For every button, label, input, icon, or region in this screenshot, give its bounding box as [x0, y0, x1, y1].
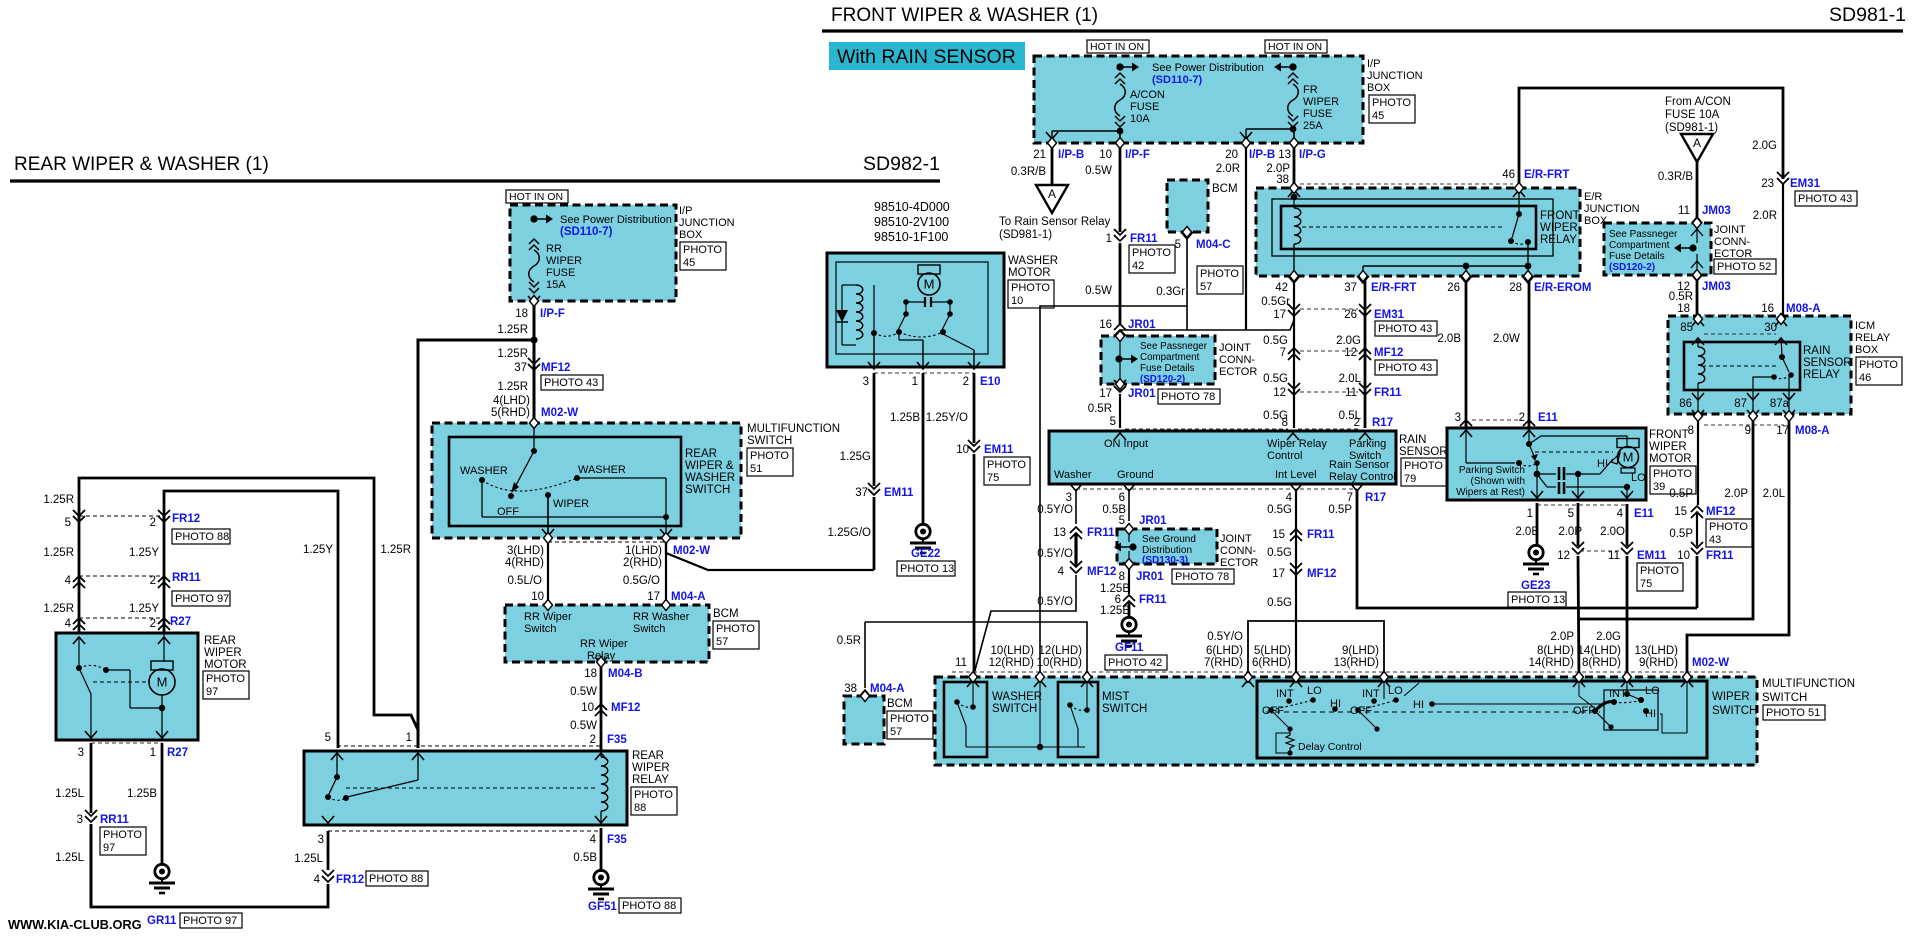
svg-text:9: 9 [1745, 425, 1751, 437]
svg-text:1.25Y: 1.25Y [129, 547, 159, 559]
photo 10 box [1008, 280, 1054, 308]
svg-text:BOX: BOX [679, 229, 703, 241]
svg-text:With RAIN SENSOR: With RAIN SENSOR [837, 46, 1016, 68]
rail1a [1537, 473, 1556, 475]
svg-text:1.25L: 1.25L [55, 852, 84, 864]
wire 0.5W [600, 662, 603, 751]
jr01 ground inner wire [1128, 529, 1130, 542]
arc sw2 [1358, 700, 1396, 710]
wire washer-left to bus [481, 480, 483, 517]
svg-text:SENSOR: SENSOR [1399, 446, 1448, 458]
svg-text:3: 3 [1066, 492, 1072, 504]
wire washer-right [577, 477, 666, 479]
svg-text:79: 79 [1404, 473, 1416, 485]
photo 78 box [1158, 389, 1220, 404]
border port [1290, 138, 1299, 149]
border port [1116, 331, 1125, 342]
svg-text:5: 5 [1568, 508, 1574, 520]
exit 86 [1692, 393, 1704, 400]
pin3 inner [1465, 428, 1467, 463]
svg-text:JM03: JM03 [1702, 281, 1731, 293]
svg-text:CONN-: CONN- [1714, 236, 1750, 248]
pin1 drop [1536, 474, 1538, 500]
svg-text:16: 16 [1099, 319, 1112, 331]
svg-text:98510-2V100: 98510-2V100 [874, 215, 949, 229]
connector FR11-11 [1359, 383, 1371, 395]
wire 2.0L from 87a to M02-W [1687, 416, 1789, 680]
svg-text:MF12: MF12 [1307, 568, 1336, 580]
svg-text:EM11: EM11 [884, 487, 914, 499]
svg-text:20: 20 [1225, 149, 1238, 161]
entry arrow pin1 [412, 753, 424, 760]
entry arrow [1242, 680, 1254, 687]
svg-text:SWITCH: SWITCH [1102, 703, 1147, 715]
hi contact [1332, 706, 1338, 712]
exit arrow pin3 [85, 731, 97, 738]
I/P junction box (front) [1034, 56, 1363, 143]
svg-text:PHOTO 78: PHOTO 78 [1175, 571, 1229, 583]
svg-text:PHOTO: PHOTO [750, 450, 789, 462]
connector dash [1704, 424, 1784, 426]
svg-text:1.25G: 1.25G [840, 451, 871, 463]
contact [871, 330, 877, 336]
svg-text:Fuse Details: Fuse Details [1609, 251, 1665, 262]
svg-text:Switch: Switch [633, 623, 665, 635]
border port [1359, 271, 1368, 282]
entry arrow [1573, 680, 1585, 687]
border port [1749, 411, 1758, 422]
svg-text:PHOTO: PHOTO [1859, 359, 1898, 371]
svg-text:OFF: OFF [497, 506, 519, 518]
svg-text:PHOTO: PHOTO [1653, 468, 1692, 480]
svg-text:86: 86 [1679, 398, 1692, 410]
connector MF12-17 [1290, 563, 1302, 575]
connector E11-3 [1460, 420, 1472, 432]
svg-text:REAR WIPER & WASHER (1): REAR WIPER & WASHER (1) [14, 154, 269, 175]
svg-text:2.0R: 2.0R [1216, 163, 1240, 175]
exit 17 [1783, 410, 1795, 417]
front wiper relay outer frame [1272, 199, 1553, 256]
svg-text:RELAY: RELAY [632, 774, 669, 786]
svg-text:11: 11 [955, 657, 967, 669]
connector R27-2 [158, 618, 170, 630]
svg-text:PHOTO: PHOTO [1200, 268, 1239, 280]
svg-text:0.5R: 0.5R [1669, 291, 1693, 303]
connector dash [1472, 419, 1522, 421]
ground GF51 [588, 870, 614, 899]
photo 88 box [366, 871, 428, 886]
rear wiper motor box [56, 633, 198, 740]
svg-text:0.5G: 0.5G [1263, 335, 1288, 347]
svg-text:1.25R: 1.25R [497, 381, 528, 393]
svg-text:0.5W: 0.5W [1085, 285, 1112, 297]
svg-text:JUNCTION: JUNCTION [1584, 203, 1640, 215]
svg-text:PHOTO 13: PHOTO 13 [900, 563, 954, 575]
svg-text:87: 87 [1734, 398, 1747, 410]
entry arrow [967, 680, 979, 687]
svg-text:88: 88 [634, 802, 646, 814]
svg-text:3: 3 [78, 747, 84, 759]
mist contact feed [1086, 683, 1088, 708]
svg-text:JR01: JR01 [1139, 515, 1167, 527]
svg-text:BCM: BCM [1212, 183, 1238, 195]
svg-text:0.5L/O: 0.5L/O [507, 575, 542, 587]
motor link dash [93, 681, 148, 683]
I/P inner wire 2 [1246, 128, 1293, 130]
with rain sensor banner [829, 42, 1025, 70]
contact [940, 329, 946, 335]
svg-text:M02-W: M02-W [541, 407, 578, 419]
svg-text:ECTOR: ECTOR [1219, 366, 1257, 378]
svg-text:0.5G: 0.5G [1267, 547, 1292, 559]
svg-text:RR Wiper: RR Wiper [580, 638, 628, 650]
svg-text:WASHER: WASHER [1008, 255, 1058, 267]
relay arc [1511, 241, 1528, 244]
connector dash [79, 575, 164, 577]
svg-text:SENSOR: SENSOR [1803, 357, 1852, 369]
svg-text:37: 37 [855, 487, 868, 499]
pivot [1067, 702, 1073, 708]
wire 1.25B to GE22 [922, 373, 925, 524]
svg-text:E/R-EROM: E/R-EROM [1534, 282, 1592, 294]
svg-text:M04-B: M04-B [608, 668, 643, 680]
svg-text:F35: F35 [607, 734, 627, 746]
svg-text:E/R: E/R [1584, 191, 1602, 203]
svg-text:WASHER: WASHER [460, 465, 508, 477]
delay wire [1276, 733, 1290, 753]
svg-text:2.0B: 2.0B [1437, 333, 1461, 345]
jm03 inner wire [1696, 223, 1698, 243]
contact [970, 704, 976, 710]
photo 39 box [1650, 466, 1696, 494]
border port [1183, 227, 1192, 238]
svg-text:RAIN: RAIN [1399, 434, 1426, 446]
delay resistor [1286, 731, 1294, 752]
connector JR01-16 [1114, 324, 1126, 336]
junction [1788, 372, 1794, 378]
svg-text:EM11: EM11 [984, 444, 1014, 456]
svg-text:0.5Y/O: 0.5Y/O [1207, 631, 1243, 643]
connector EM11-10 [968, 440, 980, 452]
svg-text:10A: 10A [1130, 113, 1150, 125]
svg-text:0.5R: 0.5R [1088, 403, 1112, 415]
inner bus [1363, 265, 1528, 267]
svg-text:BCM: BCM [887, 698, 913, 710]
svg-text:1.25Y: 1.25Y [303, 544, 333, 556]
svg-text:M08-A: M08-A [1786, 303, 1821, 315]
svg-text:2.0R: 2.0R [1753, 210, 1777, 222]
svg-text:MULTIFUNCTION: MULTIFUNCTION [1762, 678, 1855, 690]
wire 1.25B lower [1128, 601, 1131, 617]
svg-text:(SD981-1): (SD981-1) [1665, 122, 1718, 134]
svg-text:5(RHD): 5(RHD) [491, 407, 530, 419]
junction [1287, 750, 1292, 755]
svg-text:2(RHD): 2(RHD) [623, 557, 662, 569]
relay arm [329, 777, 337, 794]
connector FR12-2 [158, 510, 170, 522]
connector dash [1704, 333, 1776, 335]
border port [1380, 672, 1389, 683]
connector EM31-26 [1359, 304, 1371, 316]
sw3 entry [1579, 683, 1596, 709]
relay pivot icm [1779, 354, 1785, 360]
svg-text:See Ground: See Ground [1142, 534, 1196, 545]
svg-text:12: 12 [1273, 387, 1286, 399]
svg-text:Ground: Ground [1117, 469, 1154, 481]
svg-text:97: 97 [206, 686, 218, 698]
relay arm [1512, 214, 1519, 238]
wire 0.5Y/O thick [1074, 533, 1077, 566]
svg-text:3: 3 [77, 814, 83, 826]
border port [662, 600, 671, 611]
switch bus [482, 516, 666, 518]
arm sw1 [1271, 710, 1289, 728]
exit 87 [1747, 393, 1759, 400]
contact to exit 28 [1527, 244, 1529, 280]
svg-text:1: 1 [1106, 233, 1112, 245]
svg-text:MOTOR: MOTOR [204, 659, 247, 671]
svg-text:13(RHD): 13(RHD) [1334, 657, 1380, 669]
wire 1.25L [90, 743, 93, 813]
exit arrow 42 [1288, 276, 1300, 283]
svg-text:SWITCH: SWITCH [1712, 705, 1757, 717]
arc sw1 [1271, 700, 1313, 710]
arm [1070, 705, 1078, 729]
ground GE22 [910, 524, 936, 553]
junction on bus [663, 514, 669, 520]
pin1 internal [417, 753, 419, 780]
wire 0.3Gr to washer switch [1040, 232, 1187, 680]
svg-text:I/P-B: I/P-B [1249, 149, 1275, 161]
relay arc icm [1774, 375, 1791, 379]
entry arrow BCM 10 [542, 605, 554, 612]
svg-text:GF11: GF11 [1115, 642, 1144, 654]
ground GF11 [1116, 617, 1142, 646]
entry arrow [1621, 680, 1633, 687]
connector dash row [952, 671, 1750, 673]
junction [1643, 708, 1649, 714]
svg-text:0.5Gr: 0.5Gr [1261, 296, 1290, 308]
HI brush [1611, 453, 1620, 464]
svg-text:38: 38 [844, 683, 857, 695]
connector dash line [328, 830, 601, 832]
svg-text:EM31: EM31 [1790, 178, 1821, 190]
svg-text:GR11: GR11 [147, 915, 177, 927]
svg-text:0.5G: 0.5G [1267, 504, 1292, 516]
svg-text:1.25L: 1.25L [294, 853, 323, 865]
svg-text:HOT IN ON: HOT IN ON [1090, 41, 1144, 53]
relay pivot [1516, 211, 1522, 217]
BCM box top [1167, 180, 1208, 232]
svg-text:0.5G: 0.5G [1263, 373, 1288, 385]
svg-text:1.25Y: 1.25Y [129, 603, 159, 615]
connector dash [91, 742, 162, 744]
svg-text:FRONT WIPER & WASHER (1): FRONT WIPER & WASHER (1) [831, 5, 1098, 26]
junction [1117, 128, 1124, 135]
svg-text:5: 5 [1119, 515, 1125, 527]
svg-text:8: 8 [1688, 425, 1694, 437]
svg-text:1.25R: 1.25R [380, 544, 411, 556]
contact WIPER [545, 492, 551, 498]
svg-text:MF12: MF12 [541, 362, 570, 374]
svg-text:14(RHD): 14(RHD) [1529, 657, 1575, 669]
washer relay coil [856, 285, 863, 339]
svg-text:WIPER: WIPER [1303, 96, 1339, 108]
svg-text:2.0W: 2.0W [1493, 333, 1520, 345]
entry arrow [1081, 680, 1093, 687]
wire 2.0G/2.0R EM31 [1782, 183, 1784, 319]
svg-text:FR12: FR12 [172, 513, 200, 525]
svg-text:F35: F35 [607, 834, 627, 846]
border port [1694, 314, 1703, 325]
svg-text:See Power Distribution: See Power Distribution [1152, 62, 1264, 74]
svg-text:PHOTO 43: PHOTO 43 [1378, 362, 1432, 374]
svg-text:FR12: FR12 [336, 874, 364, 886]
svg-text:HOT IN ON: HOT IN ON [1268, 41, 1322, 53]
entry 2 [1523, 430, 1535, 437]
svg-text:RR11: RR11 [172, 572, 201, 584]
entry arrow [1378, 680, 1390, 687]
svg-text:13: 13 [1053, 527, 1066, 539]
svg-text:FR11: FR11 [1706, 550, 1734, 562]
mist arc [1070, 705, 1087, 710]
svg-text:2.0P: 2.0P [1724, 488, 1748, 500]
svg-text:7(RHD): 7(RHD) [1204, 657, 1243, 669]
svg-text:WIPER: WIPER [1712, 691, 1750, 703]
svg-text:1: 1 [150, 747, 156, 759]
svg-text:10: 10 [956, 444, 969, 456]
svg-text:Compartment: Compartment [1609, 240, 1670, 251]
connector dash [1300, 350, 1358, 352]
wire 1.25L return [91, 825, 328, 907]
svg-text:5: 5 [1110, 416, 1116, 428]
svg-text:SWITCH: SWITCH [1762, 692, 1807, 704]
svg-text:EM11: EM11 [1637, 550, 1667, 562]
junction [1525, 263, 1532, 270]
contact [1084, 707, 1090, 713]
connector 12 [1572, 542, 1584, 554]
svg-text:7: 7 [1280, 347, 1286, 359]
entry 3 [1460, 430, 1472, 437]
border port [1244, 672, 1253, 683]
front wiper relay frame [1281, 206, 1536, 249]
svg-text:MULTIFUNCTION: MULTIFUNCTION [747, 423, 840, 435]
border port [1083, 672, 1092, 683]
wire 2.0O [1626, 504, 1629, 546]
wire 0.5G int level [1295, 489, 1297, 680]
see power distribution arrow [530, 215, 553, 224]
ground GR11 [149, 864, 175, 893]
svg-text:SD982-1: SD982-1 [863, 153, 940, 175]
border port [1694, 411, 1703, 422]
park contact R [1534, 460, 1540, 466]
svg-text:37: 37 [1344, 282, 1357, 294]
contact [103, 667, 109, 673]
svg-text:LO: LO [1307, 685, 1322, 697]
border port [1048, 138, 1057, 149]
triangle A to rain sensor relay [1036, 185, 1068, 213]
svg-text:RELAY: RELAY [1540, 234, 1577, 246]
svg-text:FR11: FR11 [1087, 527, 1115, 539]
mist switch frame [1058, 682, 1098, 757]
svg-text:10: 10 [1099, 149, 1112, 161]
svg-text:FR11: FR11 [1139, 594, 1167, 606]
wire 2.0P from 87 [1579, 416, 1753, 619]
entry 30 [1775, 338, 1787, 345]
switch link dash [1266, 711, 1600, 713]
park contact feed [78, 637, 80, 665]
svg-text:REAR: REAR [685, 448, 717, 460]
exit arrow pin3 [322, 816, 334, 823]
svg-text:PHOTO: PHOTO [890, 713, 929, 725]
svg-text:6(LHD): 6(LHD) [1206, 645, 1243, 657]
svg-text:0.5W: 0.5W [570, 720, 597, 732]
connector MF12-15 [1691, 506, 1703, 518]
photo 79 box [1401, 458, 1447, 486]
svg-text:FUSE: FUSE [1130, 101, 1159, 113]
svg-text:42: 42 [1275, 282, 1288, 294]
svg-text:JUNCTION: JUNCTION [679, 217, 735, 229]
entry arrow jm03 [1691, 217, 1703, 224]
svg-text:(SD120-2): (SD120-2) [1140, 374, 1185, 385]
wire 0.5Y/O [1075, 489, 1077, 524]
entry 85 [1692, 338, 1704, 345]
connector pin4 [73, 576, 85, 588]
exit arrow M04-C [1181, 232, 1193, 239]
hi riser [1404, 683, 1419, 696]
entry arrow 2 [1359, 433, 1371, 440]
washer motor box [827, 253, 1004, 367]
svg-text:HI: HI [1413, 699, 1424, 711]
rail2b [1566, 486, 1624, 488]
svg-text:9(RHD): 9(RHD) [1639, 657, 1678, 669]
svg-text:0.3R/B: 0.3R/B [1011, 166, 1046, 178]
BCM box (rear) [505, 605, 709, 662]
svg-text:PHOTO: PHOTO [1640, 565, 1679, 577]
wire 1.25G [873, 373, 876, 486]
svg-text:12(LHD): 12(LHD) [1039, 645, 1083, 657]
entry arrow [1681, 680, 1693, 687]
svg-text:0.3Gr: 0.3Gr [1156, 286, 1185, 298]
entry 16 [1775, 319, 1787, 326]
svg-text:23: 23 [1761, 178, 1774, 190]
wire 0.5P lower [1696, 556, 1699, 608]
wire 1.25Y col2 top [164, 491, 338, 748]
svg-text:21: 21 [1033, 149, 1046, 161]
svg-text:2: 2 [590, 734, 596, 746]
wire wiper out [547, 495, 549, 538]
border port [969, 672, 978, 683]
switch inner frame [449, 437, 681, 526]
connector dash [1300, 391, 1358, 393]
entry arrow [1290, 680, 1302, 687]
wire 1.25R to relay pin 1 [418, 340, 534, 748]
connector dash [874, 372, 974, 374]
junction [1287, 726, 1292, 731]
switch bus [966, 746, 1085, 748]
connector FR11-1 [1114, 229, 1126, 241]
svg-text:3(LHD): 3(LHD) [507, 545, 544, 557]
wire 1.25L [327, 831, 330, 870]
photo 88 box [172, 529, 230, 544]
svg-text:CONN-: CONN- [1220, 545, 1256, 557]
svg-text:ICM: ICM [1855, 320, 1875, 332]
wire to washer switch 11 [973, 454, 976, 680]
washer contact feed [972, 683, 974, 705]
svg-text:5: 5 [325, 732, 331, 744]
pivot [1268, 707, 1274, 713]
svg-text:26: 26 [1447, 282, 1460, 294]
